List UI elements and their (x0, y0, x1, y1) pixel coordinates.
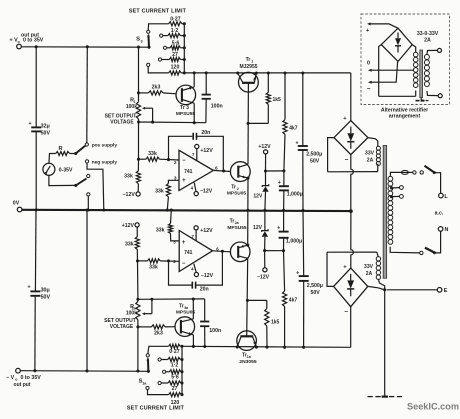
svg-text:+: + (182, 178, 186, 184)
switch mains lower blade (425, 248, 436, 255)
svg-text:12V: 12V (253, 225, 263, 231)
label SET CURRENT LIMIT top (129, 8, 187, 14)
svg-text:N: N (445, 227, 449, 233)
node feedback upper (167, 158, 170, 161)
wire lower AC link (327, 251, 377, 253)
svg-text:+: + (295, 141, 298, 147)
resistor 5.6 (167, 40, 185, 50)
wire upper winding bottom lead (377, 164, 379, 172)
svg-text:− V: − V (6, 375, 15, 381)
svg-text:−: − (182, 261, 186, 267)
svg-text:0·27: 0·27 (169, 349, 179, 355)
node zener upper (264, 169, 267, 172)
wire N to lower switch (435, 231, 440, 253)
transistor Tr1 MJ2955 (238, 57, 259, 92)
wire top +raw rail (184, 72, 350, 74)
contact 5.6 lower (163, 370, 166, 373)
svg-text:2k3: 2k3 (152, 85, 161, 91)
wire 30u cap top lead (34, 210, 37, 291)
contact neg supply (85, 159, 117, 165)
wire 32u cap top lead (35, 47, 37, 127)
svg-text:120: 120 (171, 65, 180, 71)
svg-text:33k: 33k (156, 228, 165, 234)
label lower winding (364, 264, 374, 277)
contact 27 (158, 58, 161, 61)
svg-text:100k: 100k (126, 104, 137, 110)
svg-text:0 to 35V: 0 to 35V (23, 38, 44, 44)
winding secondary upper 33V (365, 146, 380, 165)
svg-text:E: E (444, 288, 448, 294)
capacitor 100n upper (202, 73, 223, 123)
resistor 120 lower (148, 390, 183, 407)
connector circles mains (413, 171, 424, 174)
svg-text:SET CURRENT LIMIT: SET CURRENT LIMIT (127, 406, 185, 412)
svg-text:a.c.: a.c. (435, 211, 444, 217)
wire 30u cap bottom lead (34, 296, 36, 371)
svg-text:50V: 50V (310, 159, 320, 165)
transistor Tr2a MPSU55 (227, 218, 250, 261)
inset left rail (379, 45, 382, 97)
wire driver vertical middle (247, 178, 249, 245)
wire feedback loop lower (169, 251, 223, 285)
pin4 -12V lower (194, 264, 214, 279)
svg-text:−: − (344, 309, 348, 316)
svg-text:+: + (182, 240, 186, 246)
node brail/4k7 (283, 346, 286, 349)
wire lower bridge left corner (327, 252, 334, 286)
op-amp U2 741 lower (173, 231, 219, 272)
svg-text:1·2: 1·2 (171, 28, 179, 34)
wire meter bottom lead (49, 175, 76, 185)
capacitor 1000u upper (278, 171, 303, 210)
svg-text:0-35V: 0-35V (59, 167, 73, 173)
wire wiper/emitter line upper (139, 121, 206, 125)
switch S3 pole (136, 34, 150, 49)
wire bottom -raw rail (182, 346, 351, 347)
node 2k3 row junction lower (136, 325, 139, 328)
wire aux node link upper (266, 169, 286, 172)
bridge rectifier lower (334, 264, 368, 315)
resistor 0.27 (169, 16, 182, 26)
node rail/Tr1 left (236, 71, 239, 74)
inset ground (416, 98, 429, 101)
winding primary (388, 176, 393, 244)
svg-text:0 to 35V: 0 to 35V (21, 375, 42, 381)
svg-text:1k5: 1k5 (271, 320, 280, 326)
wire pole2 lower to 0V (87, 196, 89, 210)
svg-text:33V: 33V (364, 264, 374, 270)
watermark SeekIC.com (407, 402, 459, 412)
node rail/2500u (301, 71, 304, 74)
svg-text:1,000μ: 1,000μ (287, 192, 303, 198)
wire top rail to bridge + (350, 73, 352, 121)
switch mains upper blade (425, 166, 436, 174)
inset winding secondary 33-0-33 (413, 52, 418, 87)
node pole2/0V rail (87, 208, 90, 211)
wire primary top lead (390, 172, 401, 176)
capacitor 100n lower (200, 299, 221, 347)
contact 120 (147, 63, 150, 66)
wiper R1 (142, 107, 153, 122)
svg-text:+: + (28, 121, 31, 127)
wire upper bridge left corner (328, 138, 334, 172)
svg-text:MPSU55: MPSU55 (227, 225, 247, 231)
svg-text:20n: 20n (200, 287, 209, 293)
pin4 -12V upper (194, 183, 213, 196)
svg-text:2,500μ: 2,500μ (306, 152, 322, 158)
node 0V/left vertical (85, 208, 88, 211)
wire upper bridge - to 0V rail (hop) (351, 155, 354, 212)
node brail/Tr3a emitter (192, 345, 195, 348)
transformer core (383, 146, 386, 279)
wire driver vertical lower (246, 258, 249, 336)
svg-text:SeekIC.com: SeekIC.com (407, 402, 459, 412)
node 0V/driver line (246, 209, 249, 212)
node 0V rail right end (349, 209, 353, 213)
node feedback lower (167, 259, 170, 262)
wire +12V chain to pot (137, 261, 139, 299)
wire pos supply to +V rail (86, 47, 89, 143)
contact 5.6 (163, 46, 166, 49)
fuse (401, 170, 412, 174)
wire Tr3 emitter down (193, 103, 195, 123)
svg-text:50V: 50V (41, 294, 51, 300)
terminal N (438, 227, 448, 233)
wire Tr3a emitter down (192, 335, 194, 347)
svg-text:5·6: 5·6 (171, 374, 179, 380)
svg-text:100n: 100n (209, 328, 221, 334)
ground symbol (368, 396, 403, 398)
svg-text:+: + (296, 271, 299, 277)
transistor Tr3 MPSU55 (176, 85, 196, 117)
node 0V/33k upper (166, 209, 169, 212)
svg-text:−12V: −12V (123, 192, 136, 198)
wire upper AC link (328, 171, 378, 173)
wire earth down (384, 290, 386, 396)
svg-text:−: − (182, 158, 186, 164)
capacitor 1000u lower (277, 210, 302, 250)
svg-text:VOLTAGE: VOLTAGE (110, 120, 134, 126)
contact pos supply (85, 142, 117, 148)
svg-text:Tr: Tr (246, 57, 251, 63)
svg-text:−12V: −12V (257, 275, 270, 281)
contact S3 wiper tip (147, 30, 150, 33)
node +V/R1 chain junction (137, 45, 140, 48)
svg-text:33-0-33V: 33-0-33V (417, 31, 439, 37)
inset bottom wire (379, 95, 416, 97)
svg-text:4k7: 4k7 (289, 126, 298, 132)
resistor 0.27 lower (169, 344, 182, 355)
inset core (420, 50, 423, 98)
inset winding primary (424, 55, 429, 87)
wiper R1a (142, 299, 152, 315)
svg-text:100n: 100n (211, 104, 223, 110)
wire earth line (387, 289, 438, 291)
resistor 2k3 lower (138, 325, 175, 337)
svg-text:arrangement: arrangement (389, 114, 421, 120)
potentiometer R1 100k (105, 98, 141, 126)
label 33-0-33V 2A (417, 31, 439, 44)
resistor 33k input upper (137, 151, 179, 161)
winding secondary lower 33V (376, 257, 380, 280)
node rail/Tr3 collector (193, 71, 196, 74)
bridge rectifier upper (334, 116, 368, 164)
node +V/32u junction (35, 45, 38, 48)
svg-text:33k: 33k (155, 189, 164, 195)
terminal E (437, 288, 447, 295)
contact 1.2 (160, 34, 163, 37)
node rail/100n (205, 71, 208, 74)
svg-text:33k: 33k (124, 174, 133, 180)
wire aux node link lower (265, 249, 285, 252)
capacitor 20n upper (193, 130, 210, 140)
svg-text:27: 27 (172, 386, 178, 392)
capacitor 30u 50V (27, 285, 50, 301)
wire 0.27 to right rail (182, 23, 184, 25)
contact 120 lower (146, 386, 149, 389)
svg-text:MPSU05: MPSU05 (176, 309, 196, 315)
zener 12V lower (253, 210, 268, 250)
svg-text:+12V: +12V (200, 228, 213, 234)
wire lower winding top lead (377, 252, 378, 257)
svg-text:+12V: +12V (258, 144, 271, 150)
svg-text:2A: 2A (424, 38, 431, 44)
wire 32u cap bottom lead (35, 131, 37, 210)
wire Tr3 collector to rail (193, 73, 195, 87)
node brail/Tr1a right (255, 346, 258, 349)
inset - output arrow (367, 62, 398, 93)
svg-text:20n: 20n (201, 130, 210, 136)
wire R to switch pole (70, 153, 76, 155)
svg-text:VOLTAGE: VOLTAGE (110, 324, 134, 330)
svg-text:SET CURRENT LIMIT: SET CURRENT LIMIT (129, 8, 187, 14)
resistor 27 (162, 52, 185, 62)
svg-text:3: 3 (140, 39, 142, 43)
svg-text:neg supply: neg supply (92, 159, 118, 165)
svg-text:33k: 33k (148, 151, 157, 157)
meter 0-35V (43, 163, 73, 175)
switch S1a pole (139, 358, 150, 386)
node +V/meter-switch junction (86, 45, 89, 48)
transistor Tr1a 2N3055 (237, 331, 257, 365)
svg-text:30μ: 30μ (41, 287, 50, 293)
switch pole 1 (meter +) (74, 146, 85, 155)
wire meter top lead (49, 154, 56, 164)
node brail/2500u (302, 346, 305, 349)
node 0V/2500u column (301, 209, 304, 212)
resistor 4k7 lower (283, 251, 298, 348)
pin7 +12V upper (195, 144, 213, 160)
wire lower bridge - to bottom rail (350, 307, 352, 348)
svg-text:0V: 0V (13, 201, 20, 207)
svg-text:pos supply: pos supply (92, 142, 118, 148)
wire 0V rail (heavy) (22, 210, 351, 211)
resistor 33k from +12V (125, 227, 139, 261)
svg-text:1,000μ: 1,000μ (286, 239, 302, 245)
node brail/100n (203, 345, 206, 348)
svg-text:4k7: 4k7 (289, 298, 298, 304)
svg-text:12V: 12V (253, 193, 263, 199)
pin7 +12V lower (194, 226, 213, 241)
caption alternative rectifier arrangement (381, 108, 428, 120)
wire lower bridge right corner (368, 286, 385, 289)
wire R1 bottom lead (137, 119, 140, 159)
wire +V feed rail (21, 46, 149, 48)
node rail/Tr1 right (255, 71, 258, 74)
svg-text:Tr: Tr (230, 218, 235, 224)
node 0V/zener column (263, 209, 266, 212)
svg-text:50V: 50V (41, 130, 51, 136)
node -V/30u (33, 369, 36, 372)
contact pole2 lower (87, 193, 90, 196)
svg-text:+: + (278, 180, 281, 186)
svg-text:100k: 100k (126, 310, 137, 316)
resistor 27 lower (161, 381, 182, 392)
wire S3 contact to 0.27 (148, 24, 168, 30)
svg-text:out put: out put (14, 382, 31, 388)
svg-text:2A: 2A (367, 158, 374, 164)
wire Tr3a collector up (192, 299, 194, 319)
wire left vertical below 0V (86, 210, 88, 371)
wire feedback loop upper (169, 136, 224, 171)
wire S1a contact to 0.27 (148, 346, 169, 353)
wire op-amp output lower (213, 250, 231, 253)
terminal +12V aux (258, 144, 271, 154)
svg-text:−: − (367, 86, 371, 93)
potentiometer R1a 100k (104, 298, 140, 330)
node rail/4k7 (283, 71, 286, 74)
inset 0 centre-tap arrow (367, 61, 414, 72)
node zener lower (263, 249, 266, 252)
terminal -12V aux (257, 251, 270, 281)
resistor 33k to -12V (124, 159, 140, 192)
wire S1a bank right rail (180, 345, 183, 396)
svg-text:−12V: −12V (201, 273, 214, 279)
contact pole2 upper (87, 174, 90, 177)
resistor 4k7 upper (283, 73, 298, 171)
resistor 33k pin3 lower (156, 210, 179, 241)
svg-text:2,500μ: 2,500μ (307, 283, 323, 289)
label a.c. (435, 211, 444, 217)
capacitor 2500u upper (295, 73, 322, 210)
switch pole 2 (meter -) (74, 179, 86, 187)
wire upper bridge right corner (368, 138, 378, 147)
resistor 1.2 lower (161, 357, 182, 368)
node Tr2 emitter (246, 177, 249, 180)
wire pot chain lower (137, 320, 139, 371)
wire pot-top line lower (138, 297, 205, 300)
svg-text:741: 741 (184, 169, 193, 175)
svg-text:27: 27 (172, 52, 178, 58)
svg-text:50V: 50V (311, 290, 321, 296)
resistor R meter series (56, 146, 70, 156)
diode in lower bridge (347, 274, 354, 297)
svg-text:1·2: 1·2 (171, 362, 179, 368)
node lower 33k junction (136, 259, 139, 262)
svg-text:+12V: +12V (122, 223, 135, 229)
primary taps (390, 186, 403, 199)
node 2k3 row junction (137, 91, 140, 94)
svg-text:2k3: 2k3 (154, 330, 163, 336)
wire S3 bank right rail (183, 22, 186, 74)
svg-text:+12V: +12V (200, 148, 213, 154)
svg-text:33k: 33k (125, 242, 134, 248)
node 0V/33k lower (170, 209, 173, 212)
resistor 33k pin3 upper (155, 180, 179, 210)
op-amp U1 741 upper (174, 150, 218, 190)
svg-text:MPSU05: MPSU05 (227, 191, 247, 197)
svg-text:+: + (27, 285, 30, 291)
svg-text:2: 2 (237, 187, 239, 191)
wire to L terminal (434, 173, 440, 194)
terminal -V output 0 to 35V (6, 368, 41, 387)
wire driver vertical upper (247, 83, 250, 164)
resistor 2k3 upper (139, 85, 177, 95)
inset primary bottom lead (427, 91, 442, 98)
svg-text:0: 0 (367, 61, 370, 67)
resistor 1k5 lower (247, 300, 279, 347)
wire lower switch to primary (390, 247, 423, 255)
svg-text:5·6: 5·6 (172, 40, 180, 46)
capacitor 32u 50V (28, 121, 50, 137)
svg-text:741: 741 (184, 250, 193, 256)
terminal 0V (13, 201, 22, 212)
svg-text:1k5: 1k5 (273, 97, 282, 103)
wire R1 chain vertical upper (138, 47, 140, 102)
node 0V/32u-30u (35, 208, 38, 211)
resistor 120 (148, 65, 184, 75)
node rail/1k5 (267, 71, 270, 74)
inset bridge to winding top (412, 45, 416, 53)
contact S1a wiper tip (146, 354, 149, 357)
node neg lead / 0V rail (102, 208, 105, 211)
svg-text:0·27: 0·27 (170, 16, 180, 22)
zener 12V upper (253, 171, 268, 210)
label SET CURRENT LIMIT bottom (127, 406, 185, 412)
wire neg supply lead (87, 163, 104, 210)
svg-text:R: R (58, 146, 62, 152)
wire lower winding bottom lead (378, 280, 384, 290)
svg-text:Tr 3: Tr 3 (180, 105, 189, 111)
svg-text:Tr: Tr (231, 184, 236, 190)
resistor 1.2 (163, 28, 184, 38)
svg-text:33V: 33V (365, 151, 375, 157)
transistor Tr3a MPSU05 (175, 303, 195, 336)
resistor 1k5 upper (266, 73, 281, 123)
node earth junction (383, 288, 386, 291)
wire op-amp output upper (213, 169, 230, 172)
svg-text:−: − (345, 157, 349, 164)
wire 0V rail to lower bridge + (hop) (351, 211, 354, 268)
svg-text:2A: 2A (366, 271, 373, 277)
terminal +12V lower left (122, 223, 139, 229)
wire 1k5 to driver (248, 122, 268, 124)
wire +12V to zener node (265, 154, 267, 171)
svg-text:MPSU55: MPSU55 (176, 111, 196, 117)
transistor Tr2 MPSU05 (227, 162, 250, 197)
node -V/pot chain (136, 369, 139, 372)
inset bridge diode (395, 33, 401, 53)
resistor 33k input lower (138, 259, 180, 271)
contact 1.2 lower (158, 358, 161, 361)
inset primary top lead (427, 48, 442, 54)
wire -V feed rail (20, 370, 148, 373)
svg-text:Tr: Tr (179, 303, 184, 309)
node 0V/1000u column (282, 209, 285, 212)
terminal +V output 0 to 35V (10, 33, 44, 49)
node brail/Tr1a left (236, 345, 239, 348)
diode in upper bridge (347, 127, 354, 149)
